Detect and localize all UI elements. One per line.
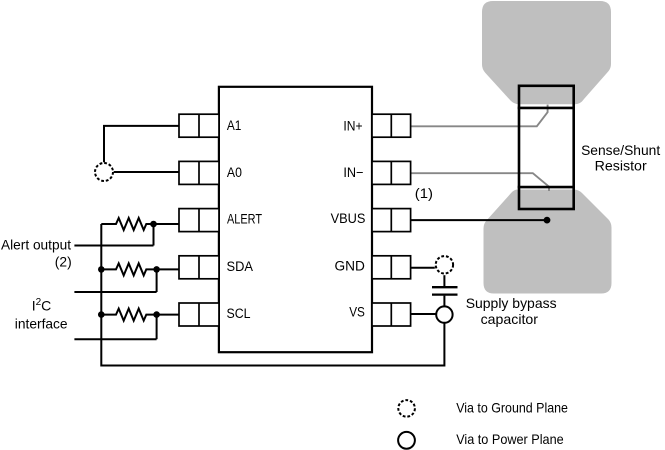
svg-text:IN+: IN+ bbox=[343, 119, 362, 134]
svg-text:capacitor: capacitor bbox=[481, 311, 539, 327]
svg-text:I2C: I2C bbox=[32, 297, 52, 314]
svg-text:Via to Ground Plane: Via to Ground Plane bbox=[456, 400, 568, 416]
svg-text:IN−: IN− bbox=[343, 165, 363, 180]
svg-text:SDA: SDA bbox=[227, 259, 254, 274]
svg-text:interface: interface bbox=[15, 316, 68, 332]
svg-text:Alert output: Alert output bbox=[1, 237, 71, 253]
svg-text:(1): (1) bbox=[415, 185, 433, 201]
svg-text:Supply bypass: Supply bypass bbox=[466, 295, 557, 311]
svg-text:A1: A1 bbox=[227, 118, 242, 133]
svg-text:Via to Power Plane: Via to Power Plane bbox=[456, 431, 564, 447]
svg-text:ALERT: ALERT bbox=[227, 212, 262, 227]
svg-text:GND: GND bbox=[335, 258, 366, 273]
svg-text:Resistor: Resistor bbox=[595, 157, 647, 173]
svg-text:VBUS: VBUS bbox=[331, 211, 366, 226]
svg-text:(2): (2) bbox=[55, 254, 72, 270]
svg-text:A0: A0 bbox=[227, 165, 242, 180]
svg-text:SCL: SCL bbox=[227, 306, 251, 321]
svg-text:Sense/Shunt: Sense/Shunt bbox=[581, 142, 660, 158]
svg-text:VS: VS bbox=[349, 304, 365, 319]
